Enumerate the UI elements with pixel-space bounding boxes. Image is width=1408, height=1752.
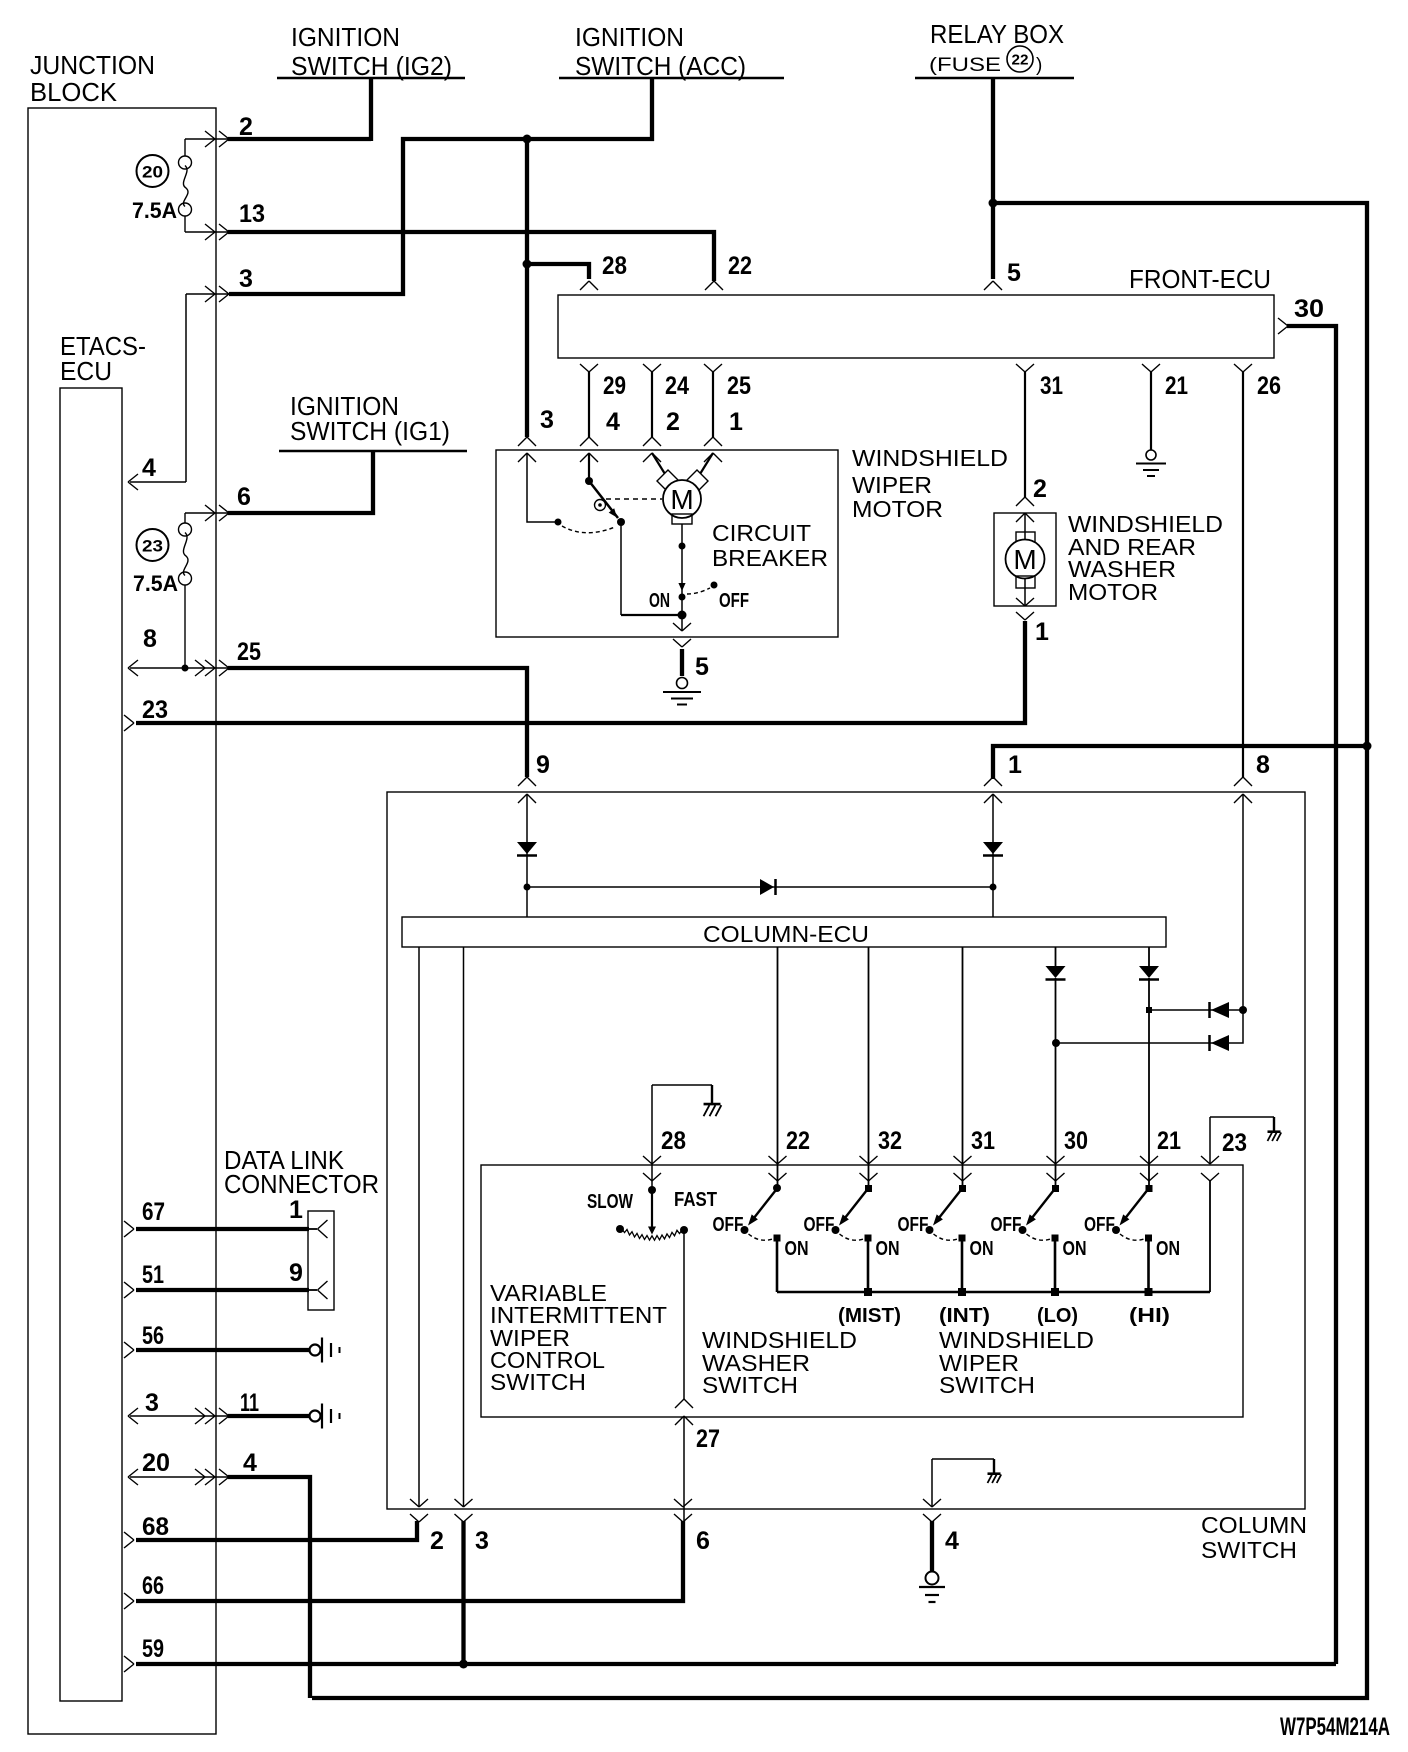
svg-text:20: 20 <box>142 163 163 182</box>
wire 25 to column pin 9 <box>228 668 527 777</box>
svg-text:30: 30 <box>1294 295 1324 323</box>
svg-text:COLUMN-ECU: COLUMN-ECU <box>703 921 869 947</box>
switch bus <box>777 1291 1210 1294</box>
diode D4 <box>1046 966 1066 978</box>
svg-text:11: 11 <box>240 1389 259 1417</box>
wire pin9 internal <box>526 794 528 917</box>
node breaker mid <box>679 543 686 550</box>
svg-text:3: 3 <box>540 406 554 434</box>
connector pin ETACS 66 <box>124 1593 134 1609</box>
wire down to breaker pin 3 <box>525 139 529 437</box>
connector pin column 6 <box>674 1499 692 1507</box>
connector pin FRONT-ECU 26 <box>1234 364 1252 372</box>
connector pin wiper motor 4 <box>580 437 598 446</box>
wire battery feed top <box>312 203 1367 1698</box>
switch 30 arm <box>1032 1188 1056 1219</box>
node switch 22 common <box>773 1184 781 1192</box>
connector pin FRONT-ECU 24 <box>643 364 661 372</box>
connector pin FRONT-ECU 28 <box>580 281 598 290</box>
svg-text:BLOCK: BLOCK <box>30 77 118 107</box>
switch 22 arm <box>754 1188 778 1219</box>
svg-text:25: 25 <box>237 638 261 666</box>
wire motor pin1 diagonal <box>700 453 713 474</box>
wire pin23 to bus <box>1209 1181 1211 1292</box>
wire pin 4 ground stub <box>930 1521 934 1572</box>
connector pins JB 11 <box>205 1408 215 1424</box>
connector pin switch 22 <box>769 1156 787 1164</box>
wire switch 31 to bus <box>961 1238 964 1292</box>
wiper motor box <box>496 450 838 637</box>
wire bar to pin 2 <box>418 947 420 1507</box>
wire pin29 to motor 4 <box>588 372 590 437</box>
motor terminal right <box>686 470 708 492</box>
node switch 30 ON contact <box>1052 1235 1059 1242</box>
arrow toward JB 25 <box>195 660 205 676</box>
svg-text:CONNECTOR: CONNECTOR <box>224 1169 379 1199</box>
svg-text:21: 21 <box>1165 372 1188 400</box>
connector pin switch 21 <box>1140 1156 1158 1164</box>
wire bar to switch 22 <box>777 947 779 1188</box>
connector pin column 1 <box>984 777 1002 786</box>
node switch 31 OFF contact <box>926 1226 934 1234</box>
node park NC contact <box>617 518 625 526</box>
node bus junction <box>1051 1288 1059 1296</box>
wire relay box stem <box>991 78 995 279</box>
breaker arm arrow <box>678 583 685 591</box>
connector pin washer 1 <box>1016 598 1034 606</box>
connector pin DLC 1 <box>309 1228 317 1230</box>
wire pin24 to motor 2 <box>651 372 653 437</box>
svg-text:OFF: OFF <box>719 590 749 612</box>
svg-text:4: 4 <box>142 454 156 482</box>
svg-text:): ) <box>1036 55 1042 76</box>
park switch throw arc <box>562 526 615 533</box>
wire pin4 chassis link <box>931 1459 933 1507</box>
terminator 56 <box>310 1345 321 1356</box>
wire ETACS 8 to JB 25 <box>130 667 230 669</box>
node rheostat right <box>680 1226 688 1234</box>
motor terminal left <box>657 470 679 492</box>
node wire28 tap <box>523 260 532 269</box>
node breaker OFF contact <box>711 582 718 589</box>
connector pin FRONT-ECU 5 <box>984 281 1002 290</box>
svg-text:23: 23 <box>142 537 163 556</box>
node switch 21 common <box>1146 1185 1153 1192</box>
wire ACC stem <box>650 78 654 141</box>
connector pin FRONT-ECU 25 <box>704 364 722 372</box>
wire row A <box>1151 1009 1243 1011</box>
wire bar to pin 3 <box>463 947 465 1507</box>
svg-text:OFF: OFF <box>713 1214 744 1236</box>
fuse 20 label <box>137 155 169 187</box>
svg-text:22: 22 <box>1012 52 1029 69</box>
svg-text:1: 1 <box>729 408 743 436</box>
connector pin switch 28 <box>643 1156 661 1164</box>
diode D5 <box>1139 966 1159 978</box>
svg-text:23: 23 <box>1222 1129 1247 1157</box>
connector pin switch 30 <box>1047 1156 1065 1164</box>
wire diode bus <box>527 886 993 888</box>
node diode bus right <box>990 884 997 891</box>
node relay junction <box>989 199 998 208</box>
wire 59 <box>136 1662 1336 1666</box>
FRONT-ECU box <box>558 295 1274 358</box>
connector pin column 4 <box>923 1499 941 1507</box>
wire ETACS pin4 sense <box>186 293 229 295</box>
svg-text:JUNCTION: JUNCTION <box>30 50 155 80</box>
connector pin column 9 <box>518 777 536 786</box>
breaker throw arc <box>687 588 710 594</box>
chassis ground 28 <box>711 1085 713 1103</box>
svg-text:W7P54M214A: W7P54M214A <box>1280 1713 1390 1741</box>
connector pin wiper motor 2 <box>643 437 661 446</box>
wire motor pin4 internal <box>588 453 590 481</box>
wire ACC feed to JB pin3 <box>229 139 654 294</box>
svg-text:3: 3 <box>145 1389 159 1417</box>
diode D2 <box>983 842 1003 854</box>
fuse 23 label <box>137 529 169 561</box>
svg-text:SWITCH: SWITCH <box>939 1372 1035 1398</box>
svg-text:31: 31 <box>971 1127 995 1155</box>
node switch 22 ON contact <box>774 1235 781 1242</box>
wire bar to switch 21 <box>1148 947 1150 966</box>
svg-text:IGNITION: IGNITION <box>291 22 400 52</box>
svg-text:ON: ON <box>1156 1238 1180 1260</box>
node rheostat wiper <box>648 1186 656 1194</box>
ETACS-ECU box <box>60 388 122 1701</box>
svg-text:ON: ON <box>649 590 670 612</box>
svg-text:68: 68 <box>142 1513 169 1541</box>
node switch 31 ON contact <box>959 1235 966 1242</box>
svg-text:66: 66 <box>142 1572 164 1600</box>
svg-text:1: 1 <box>1035 618 1049 646</box>
svg-text:51: 51 <box>142 1261 164 1289</box>
svg-text:20: 20 <box>142 1449 170 1477</box>
node switch 30 OFF contact <box>1019 1226 1027 1234</box>
connector pin wiper motor 1 <box>704 437 722 446</box>
connector pin FRONT-ECU 30 <box>1278 318 1288 334</box>
ground column pin 4 <box>926 1572 939 1585</box>
wire ETACS 56 <box>136 1348 310 1352</box>
node switch 21 OFF contact <box>1112 1226 1120 1234</box>
wire to FRONT-ECU pin 28 <box>527 264 589 279</box>
node row A left <box>1146 1007 1152 1013</box>
node switch 32 ON contact <box>865 1235 872 1242</box>
wire JB pin13 <box>185 231 230 233</box>
svg-text:(LO): (LO) <box>1037 1305 1078 1327</box>
svg-text:31: 31 <box>1040 372 1063 400</box>
wire bar to switch 30 <box>1055 947 1057 966</box>
svg-text:21: 21 <box>1157 1127 1181 1155</box>
svg-text:SWITCH (IG2): SWITCH (IG2) <box>291 51 452 81</box>
svg-text:SWITCH (ACC): SWITCH (ACC) <box>575 51 746 81</box>
svg-text:OFF: OFF <box>898 1214 929 1236</box>
svg-text:SLOW: SLOW <box>587 1191 633 1213</box>
washer motor box <box>994 513 1056 606</box>
svg-text:(MIST): (MIST) <box>838 1305 901 1327</box>
svg-text:26: 26 <box>1257 372 1281 400</box>
node switch 32 OFF contact <box>832 1226 840 1234</box>
arrow into ETACS 4 <box>128 474 138 490</box>
svg-text:CIRCUIT: CIRCUIT <box>712 520 811 546</box>
arrow toward JB 4 <box>195 1469 205 1485</box>
chassis ground col pin4 <box>993 1459 995 1473</box>
svg-text:9: 9 <box>536 751 550 779</box>
junction block outline <box>28 108 216 1734</box>
park switch arm <box>589 481 618 518</box>
svg-text:M: M <box>1013 544 1036 575</box>
switch 30 throw arc <box>1027 1234 1051 1240</box>
wire 68 to pin 2 <box>136 1521 417 1540</box>
connector pin FRONT-ECU 22 <box>705 281 723 290</box>
wire ETACS 51 to DLC 9 <box>136 1288 309 1292</box>
svg-text:ON: ON <box>1063 1238 1087 1260</box>
node pin8 row A <box>1239 1006 1247 1014</box>
wire rheostat to pin 27 <box>683 1230 685 1399</box>
connector pin column 2 <box>410 1499 428 1507</box>
svg-text:ECU: ECU <box>60 356 112 386</box>
switch 31 arm <box>939 1188 963 1219</box>
switch 22 throw arc <box>749 1234 773 1240</box>
wiper motor M <box>663 480 701 518</box>
svg-text:25: 25 <box>727 372 751 400</box>
svg-text:23: 23 <box>142 696 168 724</box>
wire park to breaker out <box>621 614 682 616</box>
wire 66 to pin 6 <box>136 1521 683 1601</box>
svg-text:6: 6 <box>696 1527 710 1555</box>
node switch 21 ON contact <box>1145 1235 1152 1242</box>
svg-text:4: 4 <box>606 408 620 436</box>
wire park NC down <box>620 522 622 615</box>
wire JB 4 to battery feed <box>228 1477 310 1698</box>
connector pins JB 6 <box>205 505 215 521</box>
wire pin8 internal <box>1057 794 1243 1043</box>
wire switch 30 to bus <box>1054 1238 1057 1292</box>
connector pin switch 23 <box>1201 1156 1219 1164</box>
svg-text:MOTOR: MOTOR <box>1068 579 1158 605</box>
wire bar to switch 31 <box>962 947 964 1188</box>
arrow into ETACS 3 <box>128 1408 138 1424</box>
connector pin ETACS 56 <box>124 1342 134 1358</box>
wire breaker output down <box>681 597 683 631</box>
node bus junction <box>958 1288 966 1296</box>
svg-text:(HI): (HI) <box>1129 1305 1170 1327</box>
wire bar to switch 32 <box>868 947 870 1188</box>
svg-text:28: 28 <box>602 252 627 280</box>
arrow into ETACS 20 <box>128 1469 138 1485</box>
node battery feed T <box>1363 742 1372 751</box>
svg-text:OFF: OFF <box>1084 1214 1115 1236</box>
connector pin column 8 <box>1234 777 1252 786</box>
wire breaker ground stub <box>680 649 684 676</box>
svg-text:29: 29 <box>603 372 626 400</box>
node bus junction <box>864 1288 872 1296</box>
svg-text:22: 22 <box>728 252 752 280</box>
fuse 23 symbol <box>179 523 192 536</box>
connector pin DLC 9 <box>309 1289 317 1291</box>
svg-text:ON: ON <box>970 1238 994 1260</box>
svg-text:1: 1 <box>1008 751 1022 779</box>
svg-text:67: 67 <box>142 1198 165 1226</box>
svg-text:13: 13 <box>239 200 265 228</box>
connector pin ETACS 68 <box>124 1532 134 1548</box>
node park arm pivot <box>585 477 593 485</box>
column switch box <box>387 792 1305 1509</box>
wire pin26 to column pin 8 <box>1242 372 1244 777</box>
connector pin FRONT-ECU 21 <box>1142 364 1160 372</box>
svg-text:7.5A: 7.5A <box>133 571 178 596</box>
svg-text:5: 5 <box>1007 259 1021 287</box>
svg-text:SWITCH: SWITCH <box>1201 1537 1297 1563</box>
washer commutator bottom <box>1016 576 1035 588</box>
svg-text:4: 4 <box>243 1449 257 1477</box>
connector pin column 3 <box>455 1499 473 1507</box>
wire motor pin2 diagonal <box>652 453 665 474</box>
node switch 22 OFF contact <box>741 1226 749 1234</box>
svg-text:WINDSHIELD: WINDSHIELD <box>852 445 1008 471</box>
wire ETACS 67 to DLC 1 <box>136 1227 309 1231</box>
ground FRONT-ECU 21 <box>1146 450 1156 460</box>
svg-text:SWITCH: SWITCH <box>702 1372 798 1398</box>
wire washer to ETACS 23 <box>136 621 1025 723</box>
svg-text:8: 8 <box>1256 751 1270 779</box>
svg-text:COLUMN: COLUMN <box>1201 1512 1307 1538</box>
rheostat element <box>622 1229 682 1240</box>
wire pin 3 down <box>461 1521 465 1664</box>
svg-text:7.5A: 7.5A <box>132 198 177 223</box>
svg-text:2: 2 <box>239 113 253 141</box>
svg-text:9: 9 <box>289 1259 303 1287</box>
wire switch 22 to bus <box>776 1238 779 1292</box>
svg-text:6: 6 <box>237 483 251 511</box>
wire ETACS 20 to JB 4 <box>130 1476 230 1478</box>
connector pins JB 25 <box>205 660 215 676</box>
connector pins JB 13 <box>205 224 215 240</box>
switch 32 arm <box>845 1188 869 1219</box>
svg-text:2: 2 <box>1033 475 1047 503</box>
wire JB 11 <box>228 1414 310 1418</box>
svg-text:ON: ON <box>876 1238 900 1260</box>
diode D3 <box>760 879 774 895</box>
node pin3-59 junction <box>459 1660 468 1669</box>
connector pin ETACS 59 <box>124 1656 134 1672</box>
arrow toward JB 11 <box>195 1408 205 1424</box>
node bus junction <box>1145 1288 1153 1296</box>
svg-text:56: 56 <box>142 1322 164 1350</box>
diode D1 <box>517 842 537 854</box>
svg-text:5: 5 <box>695 653 709 681</box>
node switch 30 common <box>1052 1185 1059 1192</box>
node breaker ON contact <box>679 594 686 601</box>
wire motor to breaker contact <box>681 524 683 595</box>
svg-text:M: M <box>670 484 693 515</box>
connector pin switch 31 <box>954 1156 972 1164</box>
svg-text:30: 30 <box>1064 1127 1088 1155</box>
svg-text:4: 4 <box>945 1527 959 1555</box>
wire JB pin2 to IG2 <box>185 138 230 140</box>
cam symbol <box>595 500 606 511</box>
wire pin28 ground link <box>651 1085 653 1188</box>
connector pin breaker 5 <box>673 623 691 631</box>
svg-text:2: 2 <box>666 408 680 436</box>
wire IG2 stem <box>369 78 373 141</box>
connector pins JB 4 <box>205 1469 215 1485</box>
wire breaker pin3 internal <box>527 453 556 522</box>
fuse 20 symbol <box>179 156 192 169</box>
svg-text:SWITCH (IG1): SWITCH (IG1) <box>290 416 450 446</box>
motor lower terminal <box>672 514 692 524</box>
svg-text:WIPER: WIPER <box>852 472 932 498</box>
svg-text:ON: ON <box>785 1238 809 1260</box>
wire switch 32 to bus <box>867 1238 870 1292</box>
svg-text:OFF: OFF <box>804 1214 835 1236</box>
svg-text:24: 24 <box>665 372 689 400</box>
svg-text:59: 59 <box>142 1635 164 1663</box>
ground breaker <box>677 678 688 689</box>
svg-text:(FUSE: (FUSE <box>929 55 1001 76</box>
connector pin ETACS 23 <box>124 715 134 731</box>
svg-text:RELAY BOX: RELAY BOX <box>930 19 1064 49</box>
svg-text:IGNITION: IGNITION <box>575 22 684 52</box>
node row B left <box>1052 1039 1060 1047</box>
data link connector box <box>308 1211 334 1310</box>
wire pin31 to washer motor <box>1024 372 1026 497</box>
connector pin breaker 3 <box>518 437 536 446</box>
connector pin switch 32 <box>860 1156 878 1164</box>
rheostat wiper arm <box>651 1190 653 1227</box>
svg-text:OFF: OFF <box>991 1214 1022 1236</box>
arrow into ETACS 8 <box>128 660 138 676</box>
node switch 31 common <box>959 1185 966 1192</box>
wire battery feed to column pin 1 <box>993 746 1367 779</box>
connector pins JB 3 <box>205 286 215 302</box>
connector pin FRONT-ECU 29 <box>580 364 598 372</box>
svg-text:FRONT-ECU: FRONT-ECU <box>1129 264 1271 294</box>
chassis ground 23 <box>1273 1117 1275 1131</box>
washer motor internal wire <box>1024 513 1026 606</box>
washer motor M <box>1006 540 1045 579</box>
washer commutator top <box>1016 532 1035 544</box>
diode D7 <box>1208 1035 1211 1051</box>
connector pin 27 <box>675 1399 693 1408</box>
wire pin23 ground link <box>1209 1117 1211 1164</box>
svg-text:(INT): (INT) <box>939 1305 990 1327</box>
switch 32 throw arc <box>840 1234 864 1240</box>
wire FRONT-ECU pin 30 <box>1287 326 1336 1664</box>
connector pin washer 2 <box>1016 497 1034 506</box>
wire switch 21 to bus <box>1147 1238 1150 1292</box>
switch 21 throw arc <box>1120 1234 1144 1240</box>
connector pin FRONT-ECU 31 <box>1016 364 1034 372</box>
svg-text:MOTOR: MOTOR <box>852 496 943 522</box>
svg-text:27: 27 <box>696 1425 720 1453</box>
diode D6 <box>1208 1002 1211 1018</box>
svg-text:BREAKER: BREAKER <box>712 545 828 571</box>
node ACC junction <box>523 135 532 144</box>
node park common <box>555 519 562 526</box>
svg-text:3: 3 <box>239 265 253 293</box>
switch 31 throw arc <box>934 1234 958 1240</box>
svg-text:28: 28 <box>661 1127 686 1155</box>
svg-text:22: 22 <box>786 1127 810 1155</box>
svg-text:8: 8 <box>143 625 157 653</box>
terminator 11 <box>310 1411 321 1422</box>
svg-text:3: 3 <box>475 1527 489 1555</box>
cam link dashed <box>606 498 662 500</box>
node switch 32 common <box>865 1185 872 1192</box>
connector pin ETACS 51 <box>124 1282 134 1298</box>
svg-text:SWITCH: SWITCH <box>490 1369 586 1395</box>
